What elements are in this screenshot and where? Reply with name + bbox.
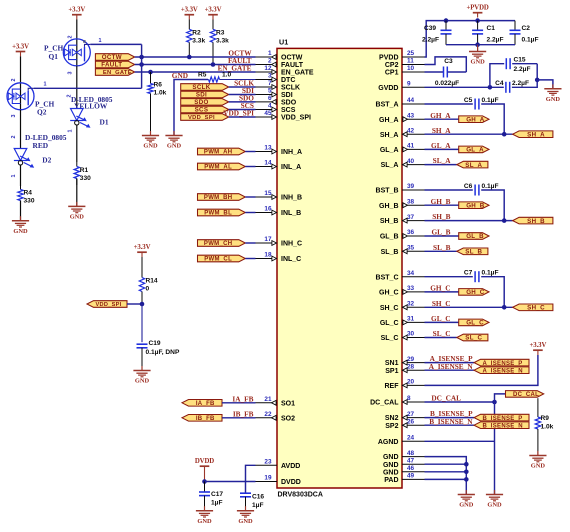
svg-text:AVDD: AVDD [281,463,300,470]
svg-text:D1: D1 [100,117,109,126]
svg-text:11: 11 [407,58,414,65]
wire FAULT flag to pin 2 [135,64,256,66]
node junction FAULT / R3 [211,62,216,67]
svg-text:SH_C: SH_C [527,305,545,312]
svg-text:330: 330 [80,175,91,182]
svg-text:GND: GND [383,469,399,476]
svg-text:SL_C: SL_C [433,329,451,338]
wire SCS flag to pin [229,109,256,111]
net flag SH_B [513,217,553,225]
svg-text:IB_FB: IB_FB [196,416,215,422]
net flag SH_C [513,304,553,312]
svg-text:GH_A: GH_A [466,116,485,123]
wire C3 to loop right edge [448,71,467,73]
ground below C16 [237,506,254,525]
wire CP2 loop to C3 [425,57,467,72]
wire Q2 drain down to LED D2 [20,110,22,149]
svg-text:B_ISENSE_P: B_ISENSE_P [483,416,523,422]
net flag SH_A [513,131,553,139]
svg-text:SH_A: SH_A [432,126,451,135]
svg-text:SH_B: SH_B [432,212,450,221]
capacitor C2 0.1uF [510,21,521,45]
svg-text:48: 48 [407,450,415,457]
power +3.3V (R3) [205,7,222,20]
ground below GND pins [458,490,475,509]
svg-text:2.2µF: 2.2µF [514,66,531,73]
wire GND pin 47 [425,463,467,465]
wire DVDD rail to pin 19 [205,481,256,483]
svg-text:C4: C4 [495,80,504,87]
svg-text:SDO: SDO [194,99,208,106]
svg-text:VDD_SPI: VDD_SPI [223,109,254,118]
svg-text:25: 25 [407,50,415,57]
svg-text:GND: GND [238,518,253,525]
svg-text:C17: C17 [211,491,223,498]
svg-text:GL_A: GL_A [466,147,484,154]
svg-text:1µF: 1µF [252,502,264,509]
svg-text:PWM_BL: PWM_BL [204,211,232,217]
resistor R14 0 ohm [139,257,144,304]
wire GVDD to C4 [425,86,504,88]
svg-text:+3.3V: +3.3V [530,342,547,349]
net flag B_ISENSE_P [474,414,529,422]
capacitor C15 2.2uF [506,58,510,69]
LED D2 red [14,149,34,168]
wire SP2 to B_ISENSE_N flag [425,424,475,426]
ground below R6 [142,131,159,150]
net flag GL_C [459,319,489,327]
capacitor C5 0.1uF bootstrap [475,99,479,110]
svg-text:2: 2 [11,136,17,139]
wire SH_C to flag [425,306,513,308]
svg-text:38: 38 [407,198,415,205]
node junction OCTW / R2 [187,55,192,60]
net flag PWM_AH [198,148,246,156]
net flag SL_C [457,334,488,342]
svg-text:B_ISENSE_N: B_ISENSE_N [429,417,473,426]
svg-text:PWM_AL: PWM_AL [204,165,232,171]
svg-text:42: 42 [407,127,415,134]
svg-text:Q1: Q1 [49,52,59,61]
svg-text:12: 12 [264,65,272,72]
svg-text:SL_B: SL_B [433,243,451,252]
svg-text:1: 1 [99,38,102,44]
svg-text:6: 6 [268,95,272,102]
svg-text:GVDD: GVDD [378,85,398,92]
svg-text:43: 43 [407,112,415,119]
svg-text:GND: GND [13,228,28,235]
svg-text:49: 49 [407,473,415,480]
svg-text:27: 27 [407,411,415,418]
wire GND pin 46 [425,471,467,473]
node junction C1 top / +PVDD [475,18,480,23]
wire C15 right to join [512,63,537,65]
resistor R1 330 [74,162,79,185]
svg-text:GL_B: GL_B [431,228,450,237]
svg-text:1.0k: 1.0k [154,90,167,97]
net flag PWM_CL [198,255,246,263]
node junction PAD 49 [464,477,469,482]
wire PWM_BH flag to pin [245,196,255,198]
wire SDI flag to pin [229,94,256,96]
ground below C1 [469,47,486,66]
power +PVDD [466,5,488,18]
wire Q1 gate to FAULT net vertical [90,43,141,45]
resistor R2 3.3k pull-up [187,20,192,58]
svg-text:C3: C3 [444,58,453,65]
power +3.3V (Q1 source) [68,7,85,20]
svg-text:+3.3V: +3.3V [68,7,85,14]
net flag OCTW [95,54,134,62]
wire R1 to GND [76,179,78,207]
wire IB_FB to SO2 [222,417,256,419]
net flag GH_A [459,116,489,124]
LED D1 yellow [70,109,90,128]
svg-text:DVDD: DVDD [195,458,214,465]
wire PWM_CL flag to pin [245,258,255,260]
wire SP1 to A_ISENSE_N flag [425,369,475,371]
svg-text:IA_FB: IA_FB [232,394,253,403]
svg-text:A_ISENSE_P: A_ISENSE_P [483,361,523,367]
net flag A_ISENSE_P [474,359,529,367]
svg-text:EN_GATE: EN_GATE [103,70,132,76]
wire PWM_AL flag to pin [245,166,255,168]
wire CP1 to C3 [425,71,444,73]
wire node to C19 [141,304,143,342]
node junction C1 bottom [475,42,480,47]
wire BST_C to C7 [425,276,473,278]
wire DC_CAL pin to node [425,401,495,403]
svg-text:GND: GND [172,71,188,80]
svg-text:26: 26 [407,418,415,425]
capacitor C39 2.2uF [441,21,452,45]
wire PWM_AH flag to pin [245,151,255,153]
svg-text:3: 3 [268,73,272,80]
net flag GL_B [459,233,489,241]
svg-text:22: 22 [264,411,272,418]
net flag SL_B [457,248,488,256]
svg-text:SL_C: SL_C [465,335,482,342]
net flag B_ISENSE_N [474,422,529,430]
ground below R1 [68,202,85,221]
svg-text:GH_C: GH_C [466,289,485,296]
transistor Q2 P_CH MOSFET [7,83,34,110]
svg-text:R2: R2 [192,30,201,37]
wire SL_B to flag [425,250,457,252]
net flag SL_A [457,161,488,169]
svg-text:44: 44 [407,97,415,104]
svg-text:GND: GND [135,378,150,385]
svg-text:0.1µF, DNP: 0.1µF, DNP [146,349,180,356]
svg-text:GL_B: GL_B [380,234,399,241]
svg-text:2.2µF: 2.2µF [422,37,439,44]
svg-text:INH_C: INH_C [281,241,302,248]
wire GL_A to flag [425,148,459,150]
svg-text:3.3k: 3.3k [192,38,205,45]
power +3.3V (R2) [181,7,198,20]
svg-text:GL_A: GL_A [380,147,399,154]
node junction GVDD branch [488,85,493,90]
wire EN_GATE flag to pin 12 [135,71,256,73]
svg-text:SL_B: SL_B [465,249,482,256]
svg-text:1: 1 [44,81,47,87]
svg-text:SL_A: SL_A [433,156,452,165]
wire GL_B to flag [425,235,459,237]
svg-text:GND: GND [383,462,399,469]
capacitor C4 2.2uF [506,82,510,93]
svg-text:C7: C7 [464,270,473,277]
svg-text:REF: REF [385,383,400,390]
node junction SH_C bootstrap [502,305,507,310]
resistor R9 1.0k [535,398,540,455]
ground below DC_CAL/AGND [486,490,503,509]
svg-text:C5: C5 [464,97,473,104]
svg-text:CP1: CP1 [385,70,399,77]
wire OCTW flag to pin 1 [135,56,256,58]
svg-text:1: 1 [11,175,17,178]
svg-text:SH_A: SH_A [380,132,399,139]
wire C19 to GND [141,348,143,371]
node junction C15/C4 gnd tap [535,78,540,83]
svg-text:1µF: 1µF [211,500,223,507]
svg-text:GND: GND [70,214,85,221]
svg-text:5: 5 [268,88,272,95]
resistor R4 330 [18,186,23,202]
svg-text:SDO: SDO [281,100,297,107]
svg-text:R9: R9 [541,415,550,422]
svg-text:4: 4 [268,103,272,110]
svg-text:PWM_CL: PWM_CL [204,257,232,263]
net flag GH_B [459,202,489,210]
ground for GVDD caps [544,84,561,103]
capacitor C1 2.2uF [472,21,483,45]
wire gnd tap [537,80,553,89]
svg-text:A_ISENSE_N: A_ISENSE_N [483,368,523,374]
svg-text:R5: R5 [198,72,207,79]
svg-text:R1: R1 [80,167,89,174]
wire AGND to gnd vertical [425,440,495,442]
svg-text:DVDD: DVDD [281,479,301,486]
svg-text:GH_A: GH_A [379,117,398,124]
svg-text:GH_B: GH_B [379,203,398,210]
svg-text:+3.3V: +3.3V [181,7,198,14]
svg-text:2.2µF: 2.2µF [512,80,529,87]
svg-text:INL_B: INL_B [281,210,301,217]
svg-text:R3: R3 [216,30,225,37]
power +3.3V (REF) [530,342,547,355]
svg-text:20: 20 [407,379,415,386]
wire D1 to R1 [76,125,78,162]
wire BST_B to C6 [425,189,473,191]
svg-text:2.2µF: 2.2µF [487,37,504,44]
svg-text:2: 2 [11,79,17,82]
svg-text:1: 1 [68,130,74,133]
svg-text:GND: GND [546,96,561,103]
svg-text:+3.3V: +3.3V [134,244,151,251]
svg-text:+3.3V: +3.3V [205,7,222,14]
svg-text:PAD: PAD [384,477,398,484]
svg-text:30: 30 [407,331,415,338]
svg-text:SL_B: SL_B [381,249,399,256]
svg-text:GND: GND [197,518,212,525]
svg-text:28: 28 [407,363,415,370]
svg-text:DC_CAL: DC_CAL [513,392,539,398]
svg-text:OCTW: OCTW [281,55,303,62]
svg-text:R14: R14 [146,278,158,285]
svg-text:DTC: DTC [281,77,295,84]
wire SN1 to A_ISENSE_P flag [425,362,475,364]
wire SH_B to flag [425,220,513,222]
svg-text:SCLK: SCLK [192,84,210,91]
wire DTC to R5 and GND [174,80,208,136]
svg-text:PVDD: PVDD [379,55,398,62]
capacitor C7 0.1uF bootstrap [475,271,479,282]
wire VDD_SPI flag to pin [229,116,256,118]
svg-text:SH_B: SH_B [380,218,399,225]
wire +3.3V to Q1 [76,20,78,39]
net flag GL_A [459,146,489,154]
svg-text:OCTW: OCTW [102,54,122,61]
svg-text:SO1: SO1 [281,400,295,407]
svg-text:14: 14 [264,160,272,167]
svg-text:39: 39 [407,183,415,190]
svg-text:DC_CAL: DC_CAL [431,394,461,403]
wire GH_B to flag [425,204,459,206]
svg-text:INH_B: INH_B [281,195,302,202]
svg-text:DC_CAL: DC_CAL [370,400,399,407]
svg-text:SP1: SP1 [385,368,398,375]
net flag DC_CAL [506,391,544,399]
svg-text:7: 7 [268,80,272,87]
wire VDD_SPI flag to R14/C19 node [127,303,142,305]
svg-text:SO2: SO2 [281,415,295,422]
svg-text:330: 330 [24,198,35,205]
svg-text:34: 34 [407,270,415,277]
svg-text:0.1µF: 0.1µF [482,270,499,277]
wire IA_FB to SO1 [222,402,256,404]
svg-text:GND: GND [531,463,546,470]
node junction SH_A bootstrap [502,132,507,137]
node junction DC_CAL [492,400,497,405]
wire SL_C to flag [425,337,457,339]
svg-text:35: 35 [407,245,415,252]
svg-text:GND: GND [487,502,502,509]
net flag SCS [181,106,229,114]
net flag PWM_BH [198,194,246,202]
wire C5 to SH_A node [481,104,504,134]
svg-text:B_ISENSE_N: B_ISENSE_N [483,423,523,429]
wire bottom cap rail [446,44,515,46]
net flag A_ISENSE_N [474,367,529,375]
svg-text:SL_A: SL_A [465,162,482,169]
capacitor C3 0.022uF flying cap [444,67,448,78]
node junction C39 top [444,18,449,23]
svg-text:33: 33 [407,285,415,292]
svg-text:C19: C19 [149,340,161,347]
wire C7 to SH_C node [481,277,504,308]
svg-text:GH_C: GH_C [379,290,398,297]
svg-text:0.022µF: 0.022µF [435,80,459,87]
svg-text:SCS: SCS [281,107,296,114]
svg-text:SDI: SDI [281,92,293,99]
svg-text:INL_C: INL_C [281,256,301,263]
svg-text:3: 3 [68,72,74,75]
wire C6 to SH_B node [481,190,504,221]
svg-text:GL_C: GL_C [380,320,399,327]
svg-text:47: 47 [407,457,415,464]
svg-text:SL_C: SL_C [381,335,399,342]
transistor Q1 P_CH MOSFET [63,39,90,66]
svg-text:VDD_SPI: VDD_SPI [188,115,215,121]
svg-text:INH_A: INH_A [281,149,302,156]
svg-text:C1: C1 [487,25,496,32]
svg-text:2: 2 [68,36,74,39]
wire DC_CAL node down to GND [494,402,496,495]
wire AVDD branch [246,465,256,493]
wire C1 bottom to GND [477,45,479,52]
svg-text:RED: RED [33,141,49,150]
svg-text:0.1µF: 0.1µF [482,183,499,190]
net flag SDO [181,99,229,107]
svg-text:C16: C16 [252,494,264,501]
svg-text:16: 16 [264,206,272,213]
svg-text:SCS: SCS [195,107,209,114]
svg-text:VDD_SPI: VDD_SPI [96,302,122,308]
svg-text:GND: GND [167,143,182,150]
svg-text:GND: GND [459,502,474,509]
svg-text:0: 0 [146,286,150,293]
svg-text:19: 19 [264,475,272,482]
svg-text:PWM_CH: PWM_CH [204,241,232,247]
wire SH_A to flag [425,133,513,135]
svg-text:GND: GND [143,143,158,150]
svg-text:SL_A: SL_A [381,162,399,169]
net flag SDI [181,91,229,99]
svg-text:18: 18 [264,252,272,259]
capacitor C19 0.1uF DNP [137,344,148,348]
wire +3.3V to Q2 [20,56,22,83]
svg-text:3: 3 [11,115,17,118]
svg-text:GH_A: GH_A [430,111,451,120]
svg-text:BST_A: BST_A [376,102,399,109]
svg-text:23: 23 [264,459,272,466]
svg-text:40: 40 [407,158,415,165]
svg-text:SH_B: SH_B [527,218,545,225]
wire Q1 drain down to LED D1 [76,66,78,109]
svg-text:BST_B: BST_B [376,188,399,195]
wire through Q2 [20,83,22,110]
node junction EN_GATE / R6 [148,70,153,75]
resistor R3 3.3k pull-up [210,20,215,65]
svg-text:15: 15 [264,190,272,197]
svg-text:29: 29 [407,356,415,363]
op-amp U1 DRV8303DCA gate driver IC body [277,48,402,488]
wire vertical joining Q1 gate, OCTW, FAULT, Q2 gate [141,44,143,88]
svg-text:13: 13 [264,145,272,152]
svg-text:10: 10 [407,65,415,72]
net flag IA_FB [182,400,222,408]
svg-text:AGND: AGND [378,439,399,446]
svg-text:R6: R6 [154,82,163,89]
svg-text:A_ISENSE_N: A_ISENSE_N [429,362,474,371]
svg-text:SH_A: SH_A [527,131,545,138]
wire SCLK flag to pin [229,86,256,88]
resistor R6 1.0k EN_GATE pulldown [148,72,153,136]
wire DC_CAL node up to flag [495,394,506,402]
ground below R4 [12,216,29,235]
svg-text:Q2: Q2 [37,108,47,117]
power +3.3V (R14) [134,244,151,257]
